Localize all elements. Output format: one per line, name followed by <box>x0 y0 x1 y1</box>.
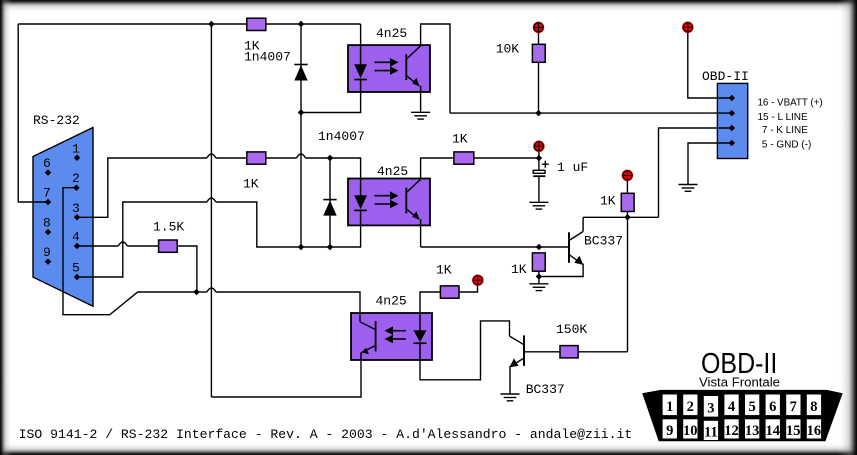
wire R2 to diode2 <box>266 157 297 159</box>
OBD front pin 1 <box>663 395 677 416</box>
wire K junction row <box>583 216 658 218</box>
connector J1 RS-232 body <box>33 128 93 307</box>
svg-text:6: 6 <box>43 156 51 171</box>
OBD front pin 15 <box>786 419 801 439</box>
pin 16 OBD <box>729 95 736 102</box>
wire diode2 junction to LED2 anode <box>306 158 361 179</box>
OBD front pin 4 <box>724 395 738 416</box>
svg-text:6: 6 <box>769 399 776 415</box>
wire VBATT red dot to pin 16 <box>688 33 732 98</box>
junction Q1 base <box>536 244 543 251</box>
svg-text:3: 3 <box>72 201 80 216</box>
svg-text:15 - L LINE: 15 - L LINE <box>758 112 808 123</box>
OBD front pin 13 <box>745 419 760 439</box>
OBD front pin 8 <box>807 395 821 416</box>
svg-text:Vista Frontale: Vista Frontale <box>699 374 780 389</box>
ground capacitor <box>529 202 548 209</box>
resistor R1 1K <box>247 18 266 30</box>
wire 10K to L line <box>538 62 540 113</box>
wire 1K pullup to K junction <box>626 212 628 218</box>
resistor R3 1.5K <box>159 240 178 252</box>
junction cap node <box>536 155 543 162</box>
wire GND pin 5 <box>688 143 732 185</box>
svg-text:BC337: BC337 <box>584 234 623 249</box>
node +12V near R8 <box>472 274 484 286</box>
OBD front pin 16 <box>807 419 822 439</box>
U1 LED <box>354 45 367 92</box>
wire cap junction stub to red dot <box>538 152 540 159</box>
ground opto1 <box>411 112 430 119</box>
node +12V above 10K <box>533 22 545 34</box>
wire opto3 emitter return <box>211 360 361 397</box>
svg-text:1K: 1K <box>243 177 259 192</box>
svg-text:3: 3 <box>707 400 714 416</box>
pin 2 <box>73 184 80 191</box>
OBD front pin 2 <box>683 395 697 416</box>
svg-text:BC337: BC337 <box>526 382 565 397</box>
svg-text:2: 2 <box>72 171 80 186</box>
capacitor C1 1uF <box>533 161 549 177</box>
opto U2 4n25 box <box>348 179 430 226</box>
node +12V VBATT <box>682 22 694 34</box>
junction 1.5K node <box>193 289 200 296</box>
resistor R4 1K <box>454 152 474 164</box>
svg-text:9: 9 <box>666 423 673 439</box>
junction diode1 cathode rail <box>298 244 305 251</box>
wire Q1 collector drop <box>582 217 584 231</box>
svg-text:2: 2 <box>687 399 694 415</box>
pin 5 <box>74 274 81 281</box>
junction Q1 emitter 1K <box>536 273 543 280</box>
OBD-II front view shell <box>642 390 843 441</box>
U2 phototransistor <box>406 179 420 225</box>
pin 4 <box>74 243 81 250</box>
wire cap bottom to ground <box>538 177 540 203</box>
ground 1K pulldown <box>529 284 548 291</box>
wire LED3 anode up <box>420 292 440 313</box>
junction K line <box>624 214 631 221</box>
pin 15 OBD <box>729 110 736 117</box>
svg-text:7: 7 <box>43 186 51 201</box>
svg-text:OBD-II: OBD-II <box>702 69 749 84</box>
wire pin3 to TX rail <box>77 158 207 217</box>
U3 arrows <box>385 326 406 343</box>
wire +12V top rail <box>18 23 360 25</box>
OBD front pin 14 <box>765 419 780 439</box>
wire hop to R3 <box>127 245 158 247</box>
junction diode2 top <box>327 155 334 162</box>
pin 8 <box>45 229 52 236</box>
svg-text:4n25: 4n25 <box>376 294 407 309</box>
svg-text:ISO 9141-2 / RS-232 Interface: ISO 9141-2 / RS-232 Interface - Rev. A -… <box>19 427 633 442</box>
wire main vertical bus x211 <box>210 24 212 397</box>
svg-text:1: 1 <box>666 399 673 415</box>
wire 1K pulldown bottom to ground <box>538 271 540 284</box>
OBD front pin 12 <box>724 419 739 439</box>
wire 10K stub to red dot <box>538 33 540 44</box>
pin 6 <box>45 169 52 176</box>
ground OBD pin5 <box>679 185 698 192</box>
U3 phototransistor <box>360 313 376 360</box>
OBD front pin 10 <box>683 419 698 439</box>
transistor Q2 BC337 <box>509 335 524 367</box>
ground Q2 emitter <box>501 394 520 401</box>
wire K LINE pin 7 <box>659 128 732 217</box>
pin 7 OBD <box>729 125 736 132</box>
wire diode2 column <box>329 158 331 247</box>
junction diode1 bottom <box>298 109 305 116</box>
svg-text:RS-232: RS-232 <box>33 113 80 128</box>
wire Q2 emitter to ground <box>509 366 511 394</box>
wire left rail down to pin 7 <box>18 24 48 202</box>
OBD front pin 6 <box>766 395 780 416</box>
wire base rail to Q1 <box>421 246 569 248</box>
hop junction rail over x211 <box>207 288 216 292</box>
node +12V above capacitor <box>533 141 545 153</box>
node +12V above 1K pullup <box>622 170 634 182</box>
wire diode1 bottom to LED1 cathode <box>301 92 361 113</box>
resistor R2 1K <box>247 152 266 164</box>
pin 1 <box>74 155 81 162</box>
hop pin5 rail over x211 <box>207 198 216 202</box>
wire junction rail to hop <box>197 291 207 293</box>
pin 5 OBD <box>729 140 736 147</box>
svg-text:1K: 1K <box>436 263 452 278</box>
svg-text:4n25: 4n25 <box>377 164 408 179</box>
svg-text:15: 15 <box>786 423 801 439</box>
pin 7 <box>45 199 52 206</box>
svg-text:13: 13 <box>745 423 760 439</box>
svg-text:1K: 1K <box>452 132 468 147</box>
svg-text:1K: 1K <box>511 262 527 277</box>
wire L LINE into pin 15 <box>450 112 732 114</box>
svg-text:7 - K LINE: 7 - K LINE <box>762 125 808 136</box>
svg-text:5: 5 <box>72 261 80 276</box>
OBD front pin 9 <box>663 419 677 439</box>
svg-text:8: 8 <box>43 216 51 231</box>
wire R8 to red dot stub <box>459 286 478 292</box>
svg-text:1n4007: 1n4007 <box>318 129 365 144</box>
wire pin5 riser <box>77 202 207 277</box>
diode D1 1n4007 <box>294 65 307 81</box>
svg-text:7: 7 <box>790 399 797 415</box>
wire 150K to column <box>578 351 627 353</box>
svg-text:9: 9 <box>43 245 51 260</box>
resistor R5 10K <box>532 44 545 62</box>
svg-text:1.5K: 1.5K <box>153 220 184 235</box>
svg-text:1: 1 <box>72 141 80 156</box>
OBD front pin 5 <box>745 395 759 416</box>
transistor Q1 BC337 <box>569 232 583 265</box>
svg-text:4n25: 4n25 <box>376 26 407 41</box>
svg-text:1K: 1K <box>600 194 616 209</box>
svg-text:1n4007: 1n4007 <box>244 50 291 65</box>
connector J2 OBD-II body <box>717 83 747 158</box>
pin 9 <box>45 258 52 265</box>
svg-text:12: 12 <box>724 423 739 439</box>
U2 arrows <box>375 191 399 208</box>
wire pin2 down and around <box>63 188 197 315</box>
resistor R8 1K <box>440 286 459 298</box>
wire opto1 emitter to ground <box>420 92 422 112</box>
svg-text:10K: 10K <box>496 42 520 57</box>
svg-text:10: 10 <box>683 423 698 439</box>
svg-text:5: 5 <box>748 399 755 415</box>
wire pin5 rail to cathode rail <box>216 202 361 247</box>
OBD front pin 11 <box>704 421 718 441</box>
U1 arrows <box>375 58 399 75</box>
resistor R9 150K <box>560 346 578 358</box>
wire opto2 emitter down <box>420 226 422 248</box>
OBD front pin 3 <box>704 396 718 417</box>
hop pin4 over pin5 riser <box>118 242 127 246</box>
U1 phototransistor <box>406 46 420 92</box>
svg-text:5 - GND (-): 5 - GND (-) <box>762 140 811 151</box>
junction top rail x211 <box>208 21 215 28</box>
wire LED1 anode from rail <box>360 24 362 45</box>
svg-text:4: 4 <box>72 230 80 245</box>
svg-text:16: 16 <box>807 423 822 439</box>
resistor R7 1K pulldown <box>532 253 545 271</box>
diode D2 1n4007 <box>323 200 336 216</box>
wire LED3 cathode to Q2 collector <box>420 321 510 380</box>
junction top rail x301 <box>298 21 305 28</box>
svg-text:16 - VBATT (+): 16 - VBATT (+) <box>758 97 823 108</box>
wire R4 to cap junction <box>474 157 539 159</box>
op-to U1 4n25 box <box>348 45 430 92</box>
junction diode2 cathode rail <box>327 244 334 251</box>
wire junction rail to opto3 collector <box>216 292 360 313</box>
hop TX rail over x211 <box>207 154 216 158</box>
wire opto1 collector loop <box>421 24 450 113</box>
U3 LED <box>414 313 427 360</box>
svg-text:1 uF: 1 uF <box>557 160 588 175</box>
svg-text:14: 14 <box>765 423 780 439</box>
wire Q1 emitter return <box>539 264 583 277</box>
svg-text:11: 11 <box>704 424 718 440</box>
wire TX rail to R2 <box>216 157 247 159</box>
resistor R6 1K pullup <box>621 193 634 211</box>
wire pin4 to hop <box>77 245 118 247</box>
OBD front pin 7 <box>786 395 800 416</box>
svg-text:4: 4 <box>728 399 735 415</box>
pin 3 <box>74 214 81 221</box>
wire opto2 collector up <box>421 158 454 179</box>
wire R3 to 1.5K drop <box>177 246 197 292</box>
hop TX rail over x301 <box>297 154 306 158</box>
svg-text:150K: 150K <box>556 322 587 337</box>
opto U3 4n25 box <box>351 313 432 360</box>
wire diode1 column <box>300 24 302 247</box>
wire 150K column <box>627 217 629 351</box>
wire cap junction to cap top <box>538 158 540 170</box>
svg-text:8: 8 <box>810 399 817 415</box>
junction 10K L-line <box>535 110 542 117</box>
U2 LED <box>354 179 367 226</box>
wire Q2 base to 150K <box>524 351 560 353</box>
wire 1K pullup stub to red dot <box>626 181 628 193</box>
